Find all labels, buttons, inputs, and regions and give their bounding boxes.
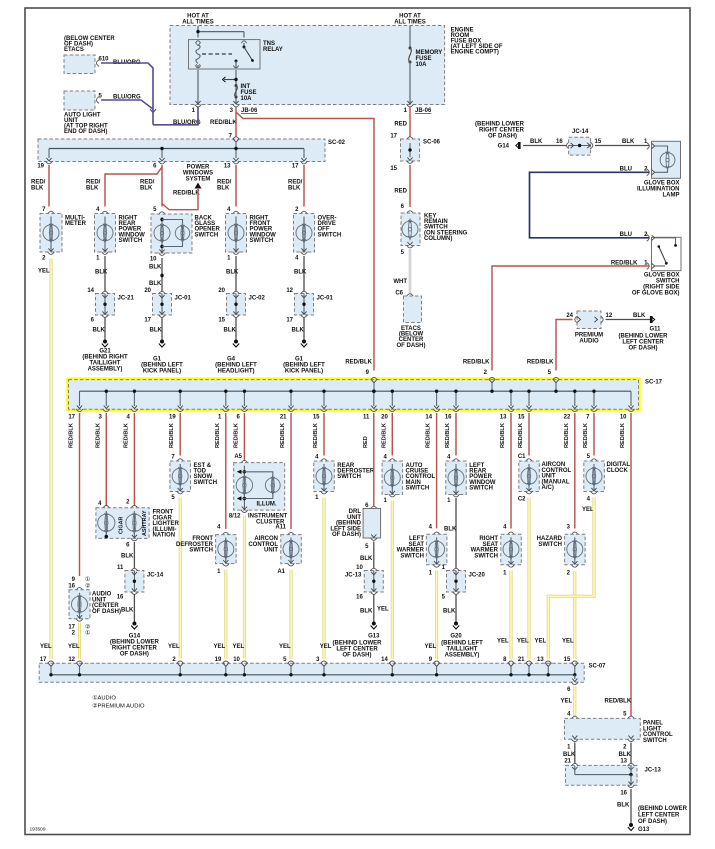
svg-text:G13: G13 xyxy=(368,634,380,640)
svg-text:BLK: BLK xyxy=(31,186,44,192)
svg-text:8/12: 8/12 xyxy=(229,514,241,520)
svg-text:BLK: BLK xyxy=(224,328,237,334)
svg-text:JC-13: JC-13 xyxy=(645,768,662,774)
svg-text:JC-14: JC-14 xyxy=(147,573,164,579)
wire RED/BLK SC-02 13 to right front power window switch xyxy=(235,165,237,207)
svg-text:RED/BLK: RED/BLK xyxy=(500,423,506,448)
svg-text:BLK: BLK xyxy=(619,752,632,758)
wire WHT from key remain switch to ETACS xyxy=(409,249,411,294)
branch arrow to other circuit xyxy=(224,79,236,81)
svg-text:BLK: BLK xyxy=(622,139,635,145)
fuse MEMORY FUSE 10A xyxy=(409,47,412,50)
svg-text:JC-01: JC-01 xyxy=(317,296,334,302)
svg-text:SC-06: SC-06 xyxy=(423,140,441,146)
svg-text:RED/BLK: RED/BLK xyxy=(583,423,589,448)
svg-text:SWITCH: SWITCH xyxy=(193,480,217,486)
svg-text:BLK: BLK xyxy=(443,609,456,615)
wire RED/BLK SC-02 17 to over-drive off switch xyxy=(303,165,305,207)
svg-text:RED/BLK: RED/BLK xyxy=(280,423,286,448)
svg-text:COLUMN): COLUMN) xyxy=(424,236,452,242)
svg-text:10: 10 xyxy=(620,415,627,421)
svg-text:BLK: BLK xyxy=(633,313,646,319)
wire RED/BLK SC-17 6 to instrument cluster xyxy=(243,413,245,461)
svg-text:SC-07: SC-07 xyxy=(589,664,607,670)
svg-text:15: 15 xyxy=(564,657,571,663)
svg-text:SYSTEM: SYSTEM xyxy=(186,177,211,183)
svg-text:BLK: BLK xyxy=(360,556,373,562)
svg-text:BLK: BLK xyxy=(121,554,134,560)
ground G13 (behind lower left center of dash) xyxy=(373,619,375,624)
svg-text:YEL: YEL xyxy=(425,644,437,650)
svg-text:13: 13 xyxy=(620,758,627,764)
svg-text:SWITCH: SWITCH xyxy=(189,548,213,554)
svg-text:YEL: YEL xyxy=(279,644,291,650)
ground G4 (behind left headlight) xyxy=(235,337,237,342)
svg-text:RELAY: RELAY xyxy=(263,47,283,53)
wire BLK back glass opener to JC-01 xyxy=(161,258,163,292)
svg-text:15: 15 xyxy=(518,415,525,421)
svg-text:SWITCH: SWITCH xyxy=(406,485,430,491)
unit PREMIUM AUDIO xyxy=(577,311,601,329)
svg-text:BLK: BLK xyxy=(86,186,99,192)
relay switch contact xyxy=(243,43,245,47)
wire BLU from lamp to glove box switch xyxy=(530,172,650,238)
svg-text:RED: RED xyxy=(363,436,369,448)
svg-text:21: 21 xyxy=(280,415,287,421)
bus SC-17 bottom pins xyxy=(79,391,81,406)
svg-text:10A: 10A xyxy=(416,62,428,68)
svg-text:C6: C6 xyxy=(395,291,403,297)
lamp GLOVE BOX ILLUMINATION LAMP xyxy=(652,141,681,178)
fuse box bottom pin 1 (right) JB-06 xyxy=(407,101,412,104)
wire RED/BLK from glove box switch to SC-17 xyxy=(492,266,650,371)
svg-text:ALL TIMES: ALL TIMES xyxy=(182,20,214,26)
svg-text:19: 19 xyxy=(169,415,176,421)
wire RED/BLK SC-17 10 to panel light control switch xyxy=(630,413,632,717)
junction connector JC-20 xyxy=(447,571,466,593)
svg-text:20: 20 xyxy=(144,288,151,294)
svg-text:RED/BLK: RED/BLK xyxy=(445,423,451,448)
svg-text:RED/BLK: RED/BLK xyxy=(95,423,101,448)
svg-text:YEL: YEL xyxy=(40,644,52,650)
svg-text:SWITCH: SWITCH xyxy=(643,738,667,744)
svg-text:YEL: YEL xyxy=(320,644,332,650)
svg-text:G20: G20 xyxy=(450,634,462,640)
svg-text:①: ① xyxy=(85,576,90,583)
wire BLK from G14 to JC-14 xyxy=(523,145,566,147)
svg-text:16: 16 xyxy=(68,584,75,590)
svg-text:LEFT CENTER: LEFT CENTER xyxy=(638,813,680,819)
svg-text:RED/BLK: RED/BLK xyxy=(233,423,239,448)
wire BLK JC-02 to G4 xyxy=(235,318,237,338)
svg-text:17: 17 xyxy=(144,318,151,324)
svg-text:C1: C1 xyxy=(518,454,526,460)
junction connector JC-13 #2 xyxy=(566,765,638,785)
wire BLK JC-21 to G21 xyxy=(104,318,106,338)
ground G1 (behind left kick panel) #2 xyxy=(303,337,305,342)
wire YEL from multi-meter to SC-07 xyxy=(50,259,53,659)
svg-text:BLK: BLK xyxy=(294,270,307,276)
svg-text:OF DASH): OF DASH) xyxy=(638,819,667,825)
svg-text:13: 13 xyxy=(500,415,507,421)
svg-text:15: 15 xyxy=(218,318,225,324)
svg-text:G13: G13 xyxy=(638,827,650,833)
svg-text:ETACS: ETACS xyxy=(64,47,84,53)
svg-text:YEL: YEL xyxy=(214,644,226,650)
wire RED/BLK SC-17 1 to front defroster switch xyxy=(225,413,227,529)
svg-text:KICK PANEL): KICK PANEL) xyxy=(143,369,181,375)
wire BLK JC-14 to G14 xyxy=(133,595,135,620)
wire BLU/ORG from AUTO LIGHT 5 xyxy=(101,100,153,109)
svg-text:14: 14 xyxy=(381,657,388,663)
svg-text:JC-02: JC-02 xyxy=(249,296,266,302)
svg-text:RED/BLK: RED/BLK xyxy=(69,423,75,448)
svg-text:RED: RED xyxy=(394,189,407,195)
svg-text:YEL: YEL xyxy=(517,639,529,645)
svg-text:LAMP: LAMP xyxy=(663,192,680,198)
svg-text:16: 16 xyxy=(445,415,452,421)
junction dot hot feed xyxy=(196,30,199,33)
svg-text:BLK: BLK xyxy=(563,752,576,758)
junction connector JC-14 xyxy=(125,571,144,593)
svg-text:SWITCH: SWITCH xyxy=(469,485,493,491)
svg-text:RED/BLK: RED/BLK xyxy=(518,423,524,448)
svg-text:SWITCH: SWITCH xyxy=(195,232,219,238)
svg-text:BLK: BLK xyxy=(288,186,301,192)
wire BLK left rear power window to JC-20 xyxy=(455,498,457,569)
svg-text:OF DASH): OF DASH) xyxy=(120,652,149,658)
svg-text:YEL: YEL xyxy=(497,639,509,645)
svg-text:(BEHIND LOWER: (BEHIND LOWER xyxy=(638,806,688,812)
wire RED/BLK SC-17 15 to aircon control unit (manual a/c) xyxy=(528,413,530,456)
svg-text:UNIT: UNIT xyxy=(264,548,278,554)
svg-text:17: 17 xyxy=(40,657,47,663)
svg-text:BLU: BLU xyxy=(620,232,632,238)
ground G21 (behind right taillight assembly) xyxy=(104,337,106,342)
svg-text:OF DASH): OF DASH) xyxy=(343,653,372,659)
svg-text:A1: A1 xyxy=(277,569,285,575)
wire YEL aircon (manual) to SC-07 pin 21 xyxy=(528,498,531,659)
svg-text:SC-17: SC-17 xyxy=(645,380,663,386)
svg-text:BLK: BLK xyxy=(444,527,457,533)
svg-text:BLK: BLK xyxy=(617,803,630,809)
svg-text:SWITCH: SWITCH xyxy=(538,542,562,548)
wire RED from JB-06 pin1 to SC-06 xyxy=(409,107,411,137)
svg-text:OF DASH): OF DASH) xyxy=(92,609,121,615)
wire BLK right front power window to JC-02 xyxy=(235,256,237,292)
fuse INT FUSE 10A xyxy=(235,84,238,87)
svg-text:17: 17 xyxy=(390,134,397,140)
svg-text:BLK: BLK xyxy=(140,186,153,192)
svg-text:11: 11 xyxy=(363,415,370,421)
svg-text:A5: A5 xyxy=(234,454,242,460)
wire YEL auto cruise to SC-07 pin 14 xyxy=(391,501,394,659)
svg-text:SWITCH: SWITCH xyxy=(474,553,498,559)
wire RED/BLK SC-17 22 to hazard switch xyxy=(574,413,576,529)
svg-text:SC-02: SC-02 xyxy=(328,140,346,146)
svg-text:RED/BLK: RED/BLK xyxy=(345,360,372,366)
svg-text:YEL: YEL xyxy=(561,699,573,705)
svg-text:AUDIO: AUDIO xyxy=(579,339,599,345)
svg-text:17: 17 xyxy=(68,415,75,421)
wire YEL aircon control unit to SC-07 pin 5 xyxy=(290,570,293,659)
svg-text:①AUDIO: ①AUDIO xyxy=(92,695,116,702)
wire to memory fuse xyxy=(409,26,411,48)
svg-text:BLK: BLK xyxy=(149,281,162,287)
svg-text:BLK: BLK xyxy=(292,328,305,334)
svg-text:YEL: YEL xyxy=(233,644,245,650)
wire YEL left seat warmer to SC-07 pin 9 xyxy=(435,571,438,659)
svg-text:BLK: BLK xyxy=(121,608,134,614)
svg-text:OF DASH): OF DASH) xyxy=(629,346,658,352)
wire RED/BLK SC-02 19 to multi-meter xyxy=(48,165,50,207)
svg-text:JC-01: JC-01 xyxy=(175,296,192,302)
wire RED/BLK SC-17 21 to aircon control unit xyxy=(290,413,292,529)
fuse box bottom pin 3 JB-06 xyxy=(233,101,238,104)
svg-text:ASSEMBLY): ASSEMBLY) xyxy=(88,367,123,373)
svg-text:BLK: BLK xyxy=(93,328,106,334)
junction connector JC-01 xyxy=(153,294,172,316)
svg-text:OF DASH): OF DASH) xyxy=(332,532,361,538)
svg-text:METER: METER xyxy=(65,221,87,227)
svg-text:A11: A11 xyxy=(275,525,286,531)
junction connector JC-01 xyxy=(295,294,314,316)
svg-text:YEL: YEL xyxy=(38,269,50,275)
wire RED/BLK SC-17 17 to audio unit xyxy=(79,413,81,576)
bus SC-02 top pin 7 xyxy=(233,137,240,140)
wire merge chevron xyxy=(150,109,156,112)
wire BLK JC-13 to G13 xyxy=(373,595,375,620)
junction connector JC-21 xyxy=(96,294,115,316)
svg-text:14: 14 xyxy=(425,415,432,421)
svg-text:12: 12 xyxy=(606,313,613,319)
svg-text:RED/BLK: RED/BLK xyxy=(313,423,319,448)
svg-text:SWITCH: SWITCH xyxy=(119,238,143,244)
svg-text:CLOCK: CLOCK xyxy=(607,468,629,474)
svg-text:RED/BLK: RED/BLK xyxy=(215,423,221,448)
wires RED/BLK SC-17 3 and 4 to front cigar lighter xyxy=(105,413,107,506)
svg-text:BLK: BLK xyxy=(217,186,230,192)
svg-text:ASHTRAY: ASHTRAY xyxy=(142,510,148,536)
svg-text:BLK: BLK xyxy=(150,328,163,334)
wire YEL SC-07 6 to panel light control switch xyxy=(573,687,576,716)
svg-text:JC-21: JC-21 xyxy=(118,296,135,302)
svg-text:16: 16 xyxy=(356,595,363,601)
wire RED/BLK from JB-06 pin 3 xyxy=(236,107,374,371)
svg-text:SWITCH: SWITCH xyxy=(318,232,342,238)
svg-text:SWITCH: SWITCH xyxy=(250,238,274,244)
ground G14 (behind lower right center of dash) xyxy=(133,619,135,624)
svg-text:YEL: YEL xyxy=(68,644,80,650)
wire BLK cigar lighter to JC-14 xyxy=(133,542,135,569)
svg-text:BLK: BLK xyxy=(360,609,373,615)
svg-text:RED/BLK: RED/BLK xyxy=(564,423,570,448)
svg-text:10: 10 xyxy=(233,657,240,663)
wire YEL digital clock to SC-07 pin 13 xyxy=(548,498,594,659)
bus SC-07 xyxy=(39,663,584,682)
wire RED/BLK zigzag to power windows system arrow xyxy=(162,189,198,210)
wire BLK JC-01 to G1 xyxy=(161,318,163,338)
wire YEL hazard switch to SC-07 pin 15 xyxy=(573,571,576,659)
svg-text:ALL TIMES: ALL TIMES xyxy=(394,20,426,26)
svg-text:OF DASH): OF DASH) xyxy=(488,134,517,140)
svg-text:YEL: YEL xyxy=(377,607,389,613)
svg-text:SWITCH: SWITCH xyxy=(337,474,361,480)
svg-text:RED/BLK: RED/BLK xyxy=(620,423,626,448)
svg-text:C2: C2 xyxy=(518,497,526,503)
relay mechanical dashed link xyxy=(202,53,232,55)
relay terminal bubbles top xyxy=(195,41,200,43)
relay TNS RELAY box xyxy=(189,40,261,69)
svg-text:RED/BLK: RED/BLK xyxy=(381,423,387,448)
svg-text:②PREMIUM AUDIO: ②PREMIUM AUDIO xyxy=(92,703,145,710)
svg-text:②: ② xyxy=(85,623,90,630)
svg-text:10: 10 xyxy=(356,565,363,571)
svg-text:ASSEMBLY): ASSEMBLY) xyxy=(445,653,480,659)
svg-text:193509: 193509 xyxy=(30,827,46,833)
wire RED/BLK SC-17 19 to est & tod snow switch xyxy=(179,413,181,456)
wire RED/BLK SC-17 7 to digital clock xyxy=(593,413,595,456)
wire BLK JC-20 to G20 xyxy=(455,595,457,620)
svg-text:①: ① xyxy=(85,630,90,637)
svg-text:12: 12 xyxy=(286,288,293,294)
svg-text:WHT: WHT xyxy=(393,279,407,285)
wire YEL audio unit to SC-07 pin 12 xyxy=(78,623,81,659)
svg-text:10A: 10A xyxy=(241,96,253,102)
svg-text:13: 13 xyxy=(537,657,544,663)
svg-text:②: ② xyxy=(85,583,90,590)
wire RED/BLK SC-17 14 to left seat warmer switch xyxy=(436,413,438,529)
engine room fuse box (dashed blue box) xyxy=(170,26,445,105)
bus SC-02 bottom pins xyxy=(48,149,50,159)
wire BLK from premium audio to G11 xyxy=(606,319,651,321)
relay terminal bubbles bottom xyxy=(195,65,200,67)
svg-text:BLK: BLK xyxy=(226,270,239,276)
svg-text:BLK: BLK xyxy=(95,270,108,276)
wire BLU/ORG from ETACS 610 xyxy=(101,63,153,125)
wire YEL right seat warmer to SC-07 pin 8 xyxy=(510,571,513,659)
bus SC-07 bottom pin 6 xyxy=(574,675,576,679)
svg-text:RED/BLK: RED/BLK xyxy=(426,423,432,448)
svg-text:16: 16 xyxy=(117,595,124,601)
junction connector JC-02 xyxy=(227,294,246,316)
svg-text:19: 19 xyxy=(215,657,222,663)
bus SC-17 top pins 9 2 5 xyxy=(371,377,378,380)
wire RED/BLK from premium audio 24 to SC-17 xyxy=(556,320,573,371)
wire RED/BLK SC-17 15 to rear defroster switch xyxy=(323,413,325,456)
svg-text:HEADLIGHT): HEADLIGHT) xyxy=(218,369,255,375)
bus SC-17 (yellow highlighted) xyxy=(69,380,639,410)
relay coil xyxy=(196,43,200,45)
svg-text:RED/BLK: RED/BLK xyxy=(123,423,129,448)
svg-text:21: 21 xyxy=(564,758,571,764)
svg-text:JC-20: JC-20 xyxy=(469,573,486,579)
wires BLK panel switch to JC-13 xyxy=(574,743,576,764)
wire RED/BLK branch down to SC-02 pin 7 xyxy=(235,112,237,137)
svg-text:22: 22 xyxy=(564,415,571,421)
svg-text:ILLUM.: ILLUM. xyxy=(257,502,277,508)
svg-text:JB-06: JB-06 xyxy=(415,108,432,114)
wire BLK over-drive off switch to JC-01 xyxy=(303,256,305,292)
svg-text:16: 16 xyxy=(556,139,563,145)
wire RED/BLK SC-17 13 to right seat warmer switch xyxy=(510,413,512,529)
junction connector JC-13 xyxy=(364,571,383,593)
svg-text:END OF DASH): END OF DASH) xyxy=(64,129,107,135)
wire BLK from JC-14 to lamp pin 1 xyxy=(595,145,649,147)
wire YEL instrument cluster to SC-07 pin 10 xyxy=(243,516,246,659)
svg-text:13: 13 xyxy=(224,164,231,170)
svg-text:15: 15 xyxy=(595,139,602,145)
svg-text:610: 610 xyxy=(99,57,110,63)
wire RED/BLK SC-17 20 to auto cruise control main switch xyxy=(391,413,393,456)
svg-text:14: 14 xyxy=(87,288,94,294)
svg-text:RED/BLK: RED/BLK xyxy=(463,360,490,366)
wire YEL est & tod to SC-07 pin 2 xyxy=(179,498,182,659)
svg-text:RED/BLK: RED/BLK xyxy=(605,699,632,705)
svg-text:G14: G14 xyxy=(498,144,510,150)
ground G1 (behind left kick panel) xyxy=(161,337,163,342)
switch GLOVE BOX SWITCH xyxy=(652,237,682,270)
svg-text:JB-06: JB-06 xyxy=(241,108,258,114)
svg-text:RED/BLK: RED/BLK xyxy=(173,191,200,197)
bus SC-02 xyxy=(38,139,325,162)
wire RED from SC-06 to key remain switch xyxy=(409,165,411,207)
bus SC-07 top pins xyxy=(48,661,55,664)
wire BLK right rear power window to JC-21 xyxy=(104,256,106,292)
svg-text:11: 11 xyxy=(117,565,124,571)
svg-text:17: 17 xyxy=(286,318,293,324)
svg-text:KICK PANEL): KICK PANEL) xyxy=(285,369,323,375)
svg-text:20: 20 xyxy=(381,415,388,421)
svg-text:SWITCH: SWITCH xyxy=(400,553,424,559)
ground G20 (behind left taillight assembly) xyxy=(455,619,457,624)
svg-text:10: 10 xyxy=(150,257,157,263)
svg-text:19: 19 xyxy=(37,164,44,170)
svg-text:ENGINE COMPT): ENGINE COMPT) xyxy=(451,50,499,56)
svg-text:RED/BLK: RED/BLK xyxy=(210,120,237,126)
wire YEL rear defroster to SC-07 pin 3 xyxy=(323,498,326,659)
wire RED/BLK SC-17 16 to left rear power window switch xyxy=(455,413,457,456)
svg-text:RED: RED xyxy=(394,122,407,128)
svg-text:A/C): A/C) xyxy=(542,485,554,491)
wire BLK JC-01 to G1 #2 xyxy=(303,318,305,338)
svg-text:16: 16 xyxy=(620,791,627,797)
svg-text:15: 15 xyxy=(390,166,397,172)
unit ETACS (below center of dash) xyxy=(64,55,95,74)
svg-text:OF GLOVE BOX): OF GLOVE BOX) xyxy=(632,291,680,297)
svg-text:17: 17 xyxy=(292,164,299,170)
fuse box bottom pin 1 (left) xyxy=(195,101,200,104)
svg-text:G11: G11 xyxy=(649,327,661,333)
svg-text:YEL: YEL xyxy=(168,644,180,650)
svg-text:BLK: BLK xyxy=(149,265,162,271)
svg-text:RED/BLK: RED/BLK xyxy=(527,360,554,366)
svg-text:YEL: YEL xyxy=(535,639,547,645)
svg-text:24: 24 xyxy=(566,313,573,319)
wire BLK DRL unit to JC-13 xyxy=(373,542,375,569)
svg-text:YEL: YEL xyxy=(562,639,574,645)
svg-text:RED/BLK: RED/BLK xyxy=(169,423,175,448)
ground G13 (behind lower left center of dash) #2 xyxy=(630,820,632,825)
svg-text:12: 12 xyxy=(68,657,75,663)
svg-text:NATION: NATION xyxy=(153,533,176,539)
svg-text:YEL: YEL xyxy=(582,507,594,513)
wire hot-feed left xyxy=(197,26,199,38)
wire BLU/ORG to fuse box pin 1 xyxy=(153,107,198,125)
svg-text:JC-14: JC-14 xyxy=(572,129,589,135)
ground G11 (behind lower left center of dash) xyxy=(650,316,653,323)
svg-text:21: 21 xyxy=(518,657,525,663)
